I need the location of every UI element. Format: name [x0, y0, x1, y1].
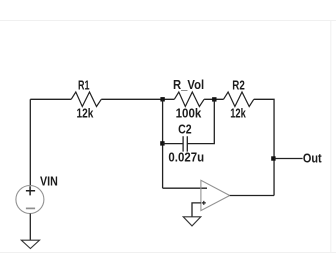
junction node B dot [212, 97, 216, 101]
svg-text:VIN: VIN [40, 174, 58, 188]
label R1 [78, 79, 90, 93]
svg-text:C2: C2 [178, 123, 192, 137]
wire VIN vertical [29, 99, 31, 186]
VIN minus sign [26, 207, 35, 209]
svg-text:R1: R1 [78, 79, 90, 93]
svg-text:100k: 100k [176, 106, 202, 120]
label C2 [178, 123, 192, 137]
voltage source VIN circle [16, 186, 44, 214]
svg-text:R_Vol: R_Vol [173, 78, 204, 92]
ground (VIN) [21, 240, 39, 248]
junction node Out dot [271, 156, 275, 160]
value 12k (R2) [230, 107, 246, 121]
value 0.027u [168, 151, 204, 165]
op-amp plus mark [202, 201, 206, 205]
label VIN [40, 174, 58, 188]
VIN plus sign [26, 186, 35, 195]
value 100k [176, 106, 202, 120]
wire R1 to R_Vol [101, 98, 174, 100]
junction node A dot [160, 97, 164, 101]
resistor R_Vol [174, 92, 204, 107]
wire R2 to right rail corner [254, 99, 274, 195]
svg-text:0.027u: 0.027u [168, 151, 204, 165]
wire node C to C2 left plate [163, 143, 184, 145]
wire C2 right plate up to node B [187, 99, 214, 143]
wire left rail to R1 [30, 98, 71, 100]
junction node C dot [160, 141, 164, 145]
wire non-inverting input [192, 203, 201, 217]
wire feedback vertical from node A [162, 99, 164, 188]
wire VIN to ground [29, 214, 31, 241]
resistor R1 [71, 92, 101, 107]
toolbar border line [0, 20, 336, 22]
svg-text:R2: R2 [232, 78, 245, 92]
ground (op-amp) [183, 217, 201, 226]
scrollbar border line [330, 21, 332, 253]
wire to Out label [274, 158, 303, 160]
label R2 [232, 78, 245, 92]
resistor R2 [224, 92, 254, 107]
svg-text:12k: 12k [230, 107, 246, 121]
net label Out [303, 151, 323, 165]
capacitor C2 [183, 136, 187, 151]
svg-text:12k: 12k [77, 107, 94, 121]
svg-text:Out: Out [303, 151, 323, 165]
wire R_Vol to R2 [204, 98, 223, 100]
label R_Vol [173, 78, 204, 92]
value 12k (R1) [77, 107, 94, 121]
op-amp U1 [201, 180, 230, 210]
wire inverting input [163, 187, 207, 189]
wire op-amp output [230, 195, 274, 197]
statusbar border line [0, 252, 336, 254]
